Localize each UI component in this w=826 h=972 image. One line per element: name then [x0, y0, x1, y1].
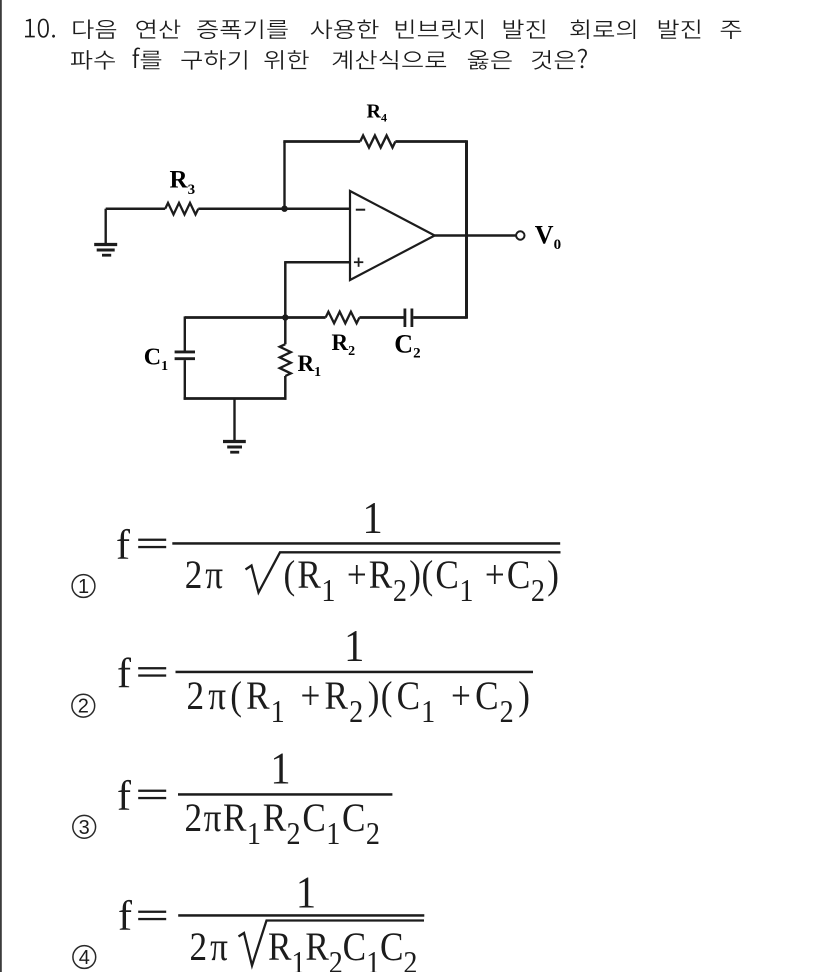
wire: top feedback left segment: [283, 140, 360, 143]
wire: top feedback right segment: [395, 140, 466, 143]
svg-text:3: 3: [79, 817, 90, 839]
formula 2: f = 1 / (2π(R1+R2)(C1+C2)): [117, 621, 533, 730]
question text (Korean), line 1 and 2: [25, 19, 741, 70]
svg-text:V0: V0: [535, 220, 561, 253]
wire: C1 branch top stem: [184, 316, 186, 350]
svg-text:R4: R4: [367, 101, 387, 125]
formula 4: f = 1 / (2π sqrt(R1R2C1C2)): [118, 867, 424, 972]
wire: op-amp output to Vo terminal: [435, 234, 516, 236]
svg-text:2π: 2π: [189, 925, 227, 970]
svg-text:R2: R2: [332, 330, 356, 359]
choice 4 marker: [73, 946, 96, 969]
svg-text:4: 4: [79, 947, 90, 969]
page left border: [0, 0, 2, 972]
svg-text:1: 1: [362, 493, 382, 544]
svg-text:f: f: [116, 523, 130, 569]
svg-text:C2: C2: [394, 330, 420, 362]
choice 1 marker: [72, 575, 95, 598]
wire: C2 to right rail: [413, 316, 466, 319]
svg-text:C1: C1: [144, 345, 168, 375]
wire: C1 bottom stem: [184, 360, 186, 400]
wire: node A up to top feedback: [283, 142, 285, 209]
svg-text:f: f: [117, 651, 131, 697]
svg-text:f: f: [117, 774, 131, 820]
wire: non-inverting input horizontal: [285, 261, 350, 264]
svg-text:1: 1: [344, 621, 364, 672]
wire: bottom feedback, C1-branch to R2: [185, 316, 326, 319]
svg-text:2: 2: [78, 696, 89, 718]
wire: non-inverting input down to node B: [284, 261, 287, 344]
resistor R3: [165, 203, 198, 215]
choice 3 marker: [73, 815, 96, 838]
svg-text:1: 1: [296, 867, 316, 918]
wire: R3 to inverting-input node: [198, 207, 350, 210]
svg-text:1: 1: [78, 576, 89, 598]
resistor R2: [326, 312, 360, 324]
op-amp U1: [350, 191, 435, 280]
node B: junction R1/R2/C1 net: [282, 314, 288, 320]
pin: inverting input (-): [356, 209, 365, 211]
wire: bottom ground wire: [184, 397, 287, 400]
svg-text:2π: 2π: [185, 553, 223, 598]
formula 1: f = 1 / (2π sqrt((R1+R2)(C1+C2))): [116, 493, 561, 609]
ground (left, at R3 input): [104, 209, 106, 244]
wire: R3 input segment (left ground to R3): [106, 207, 166, 210]
wire: R2 to C2: [359, 316, 403, 319]
svg-text:R3: R3: [170, 167, 196, 199]
capacitor C1: [175, 350, 195, 353]
ground (center, below C1/R1): [233, 399, 235, 441]
wire: right feedback rail (output to R4/C2): [465, 140, 468, 319]
resistor R4: [360, 136, 395, 148]
svg-text:R1: R1: [298, 351, 322, 380]
capacitor C2: [403, 309, 406, 328]
svg-text:1: 1: [270, 743, 290, 794]
formula 3: f = 1 / (2π R1R2C1C2): [117, 743, 392, 851]
pin: non-inverting input (+): [354, 261, 363, 263]
wire: R1 to bottom ground wire: [284, 376, 287, 400]
terminal Vo (open circle): [516, 231, 524, 239]
svg-text:f: f: [118, 894, 132, 940]
node A: junction R3/R4/inverting input: [281, 206, 287, 212]
choice 2 marker: [72, 694, 95, 717]
resistor R1: [280, 344, 291, 376]
